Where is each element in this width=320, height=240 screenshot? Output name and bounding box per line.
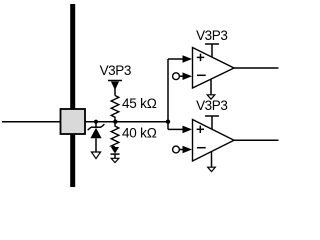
svg-text:V3P3: V3P3 bbox=[196, 28, 227, 43]
power symbol V3P3 (comparator U1) bbox=[205, 44, 219, 58]
wire: vertical feed to comparator + inputs bbox=[167, 59, 169, 129]
op-amp U2 (bottom comparator) bbox=[193, 120, 235, 162]
wire: U2 + input with arrow bbox=[168, 126, 192, 134]
svg-text:V3P3: V3P3 bbox=[100, 63, 131, 78]
U2 minus symbol bbox=[197, 147, 206, 149]
connector box bbox=[61, 109, 86, 134]
junction: comparator feed bbox=[166, 120, 170, 124]
svg-text:45 kΩ: 45 kΩ bbox=[122, 96, 157, 111]
wire: U2 output bbox=[234, 139, 279, 141]
op-amp U1 (top comparator) bbox=[193, 48, 235, 89]
svg-text:40 kΩ: 40 kΩ bbox=[122, 125, 157, 140]
U2 plus symbol bbox=[197, 126, 204, 133]
ground: U1 negative supply bbox=[207, 79, 215, 99]
resistor 40 kOhm bbox=[111, 122, 119, 147]
wire: box to comparator junction bbox=[85, 121, 168, 123]
zener diode D1 bbox=[88, 122, 105, 152]
U2 - input no-connect circle and arrow bbox=[173, 146, 192, 154]
wire: U1 + input with arrow bbox=[168, 55, 192, 63]
wire: left input segment bbox=[2, 121, 61, 123]
wire: U1 output bbox=[234, 67, 279, 69]
U1 minus symbol bbox=[197, 74, 206, 76]
power symbol V3P3 (divider) bbox=[108, 81, 122, 96]
U1 plus symbol bbox=[197, 54, 204, 61]
junction: divider midpoint bbox=[113, 120, 117, 124]
ground: below zener bbox=[91, 152, 100, 159]
junction: zener tap bbox=[94, 120, 98, 124]
bus: thick vertical signal line bbox=[70, 4, 75, 187]
power symbol V3P3 (comparator U2) bbox=[205, 116, 219, 130]
U1 - input no-connect circle and arrow bbox=[173, 72, 192, 80]
diode below 40 kOhm bbox=[111, 147, 120, 158]
ground: below 40 kOhm bbox=[111, 158, 119, 162]
svg-text:V3P3: V3P3 bbox=[196, 98, 227, 113]
resistor 45 kOhm bbox=[111, 96, 119, 122]
ground: U2 negative supply bbox=[208, 152, 216, 172]
